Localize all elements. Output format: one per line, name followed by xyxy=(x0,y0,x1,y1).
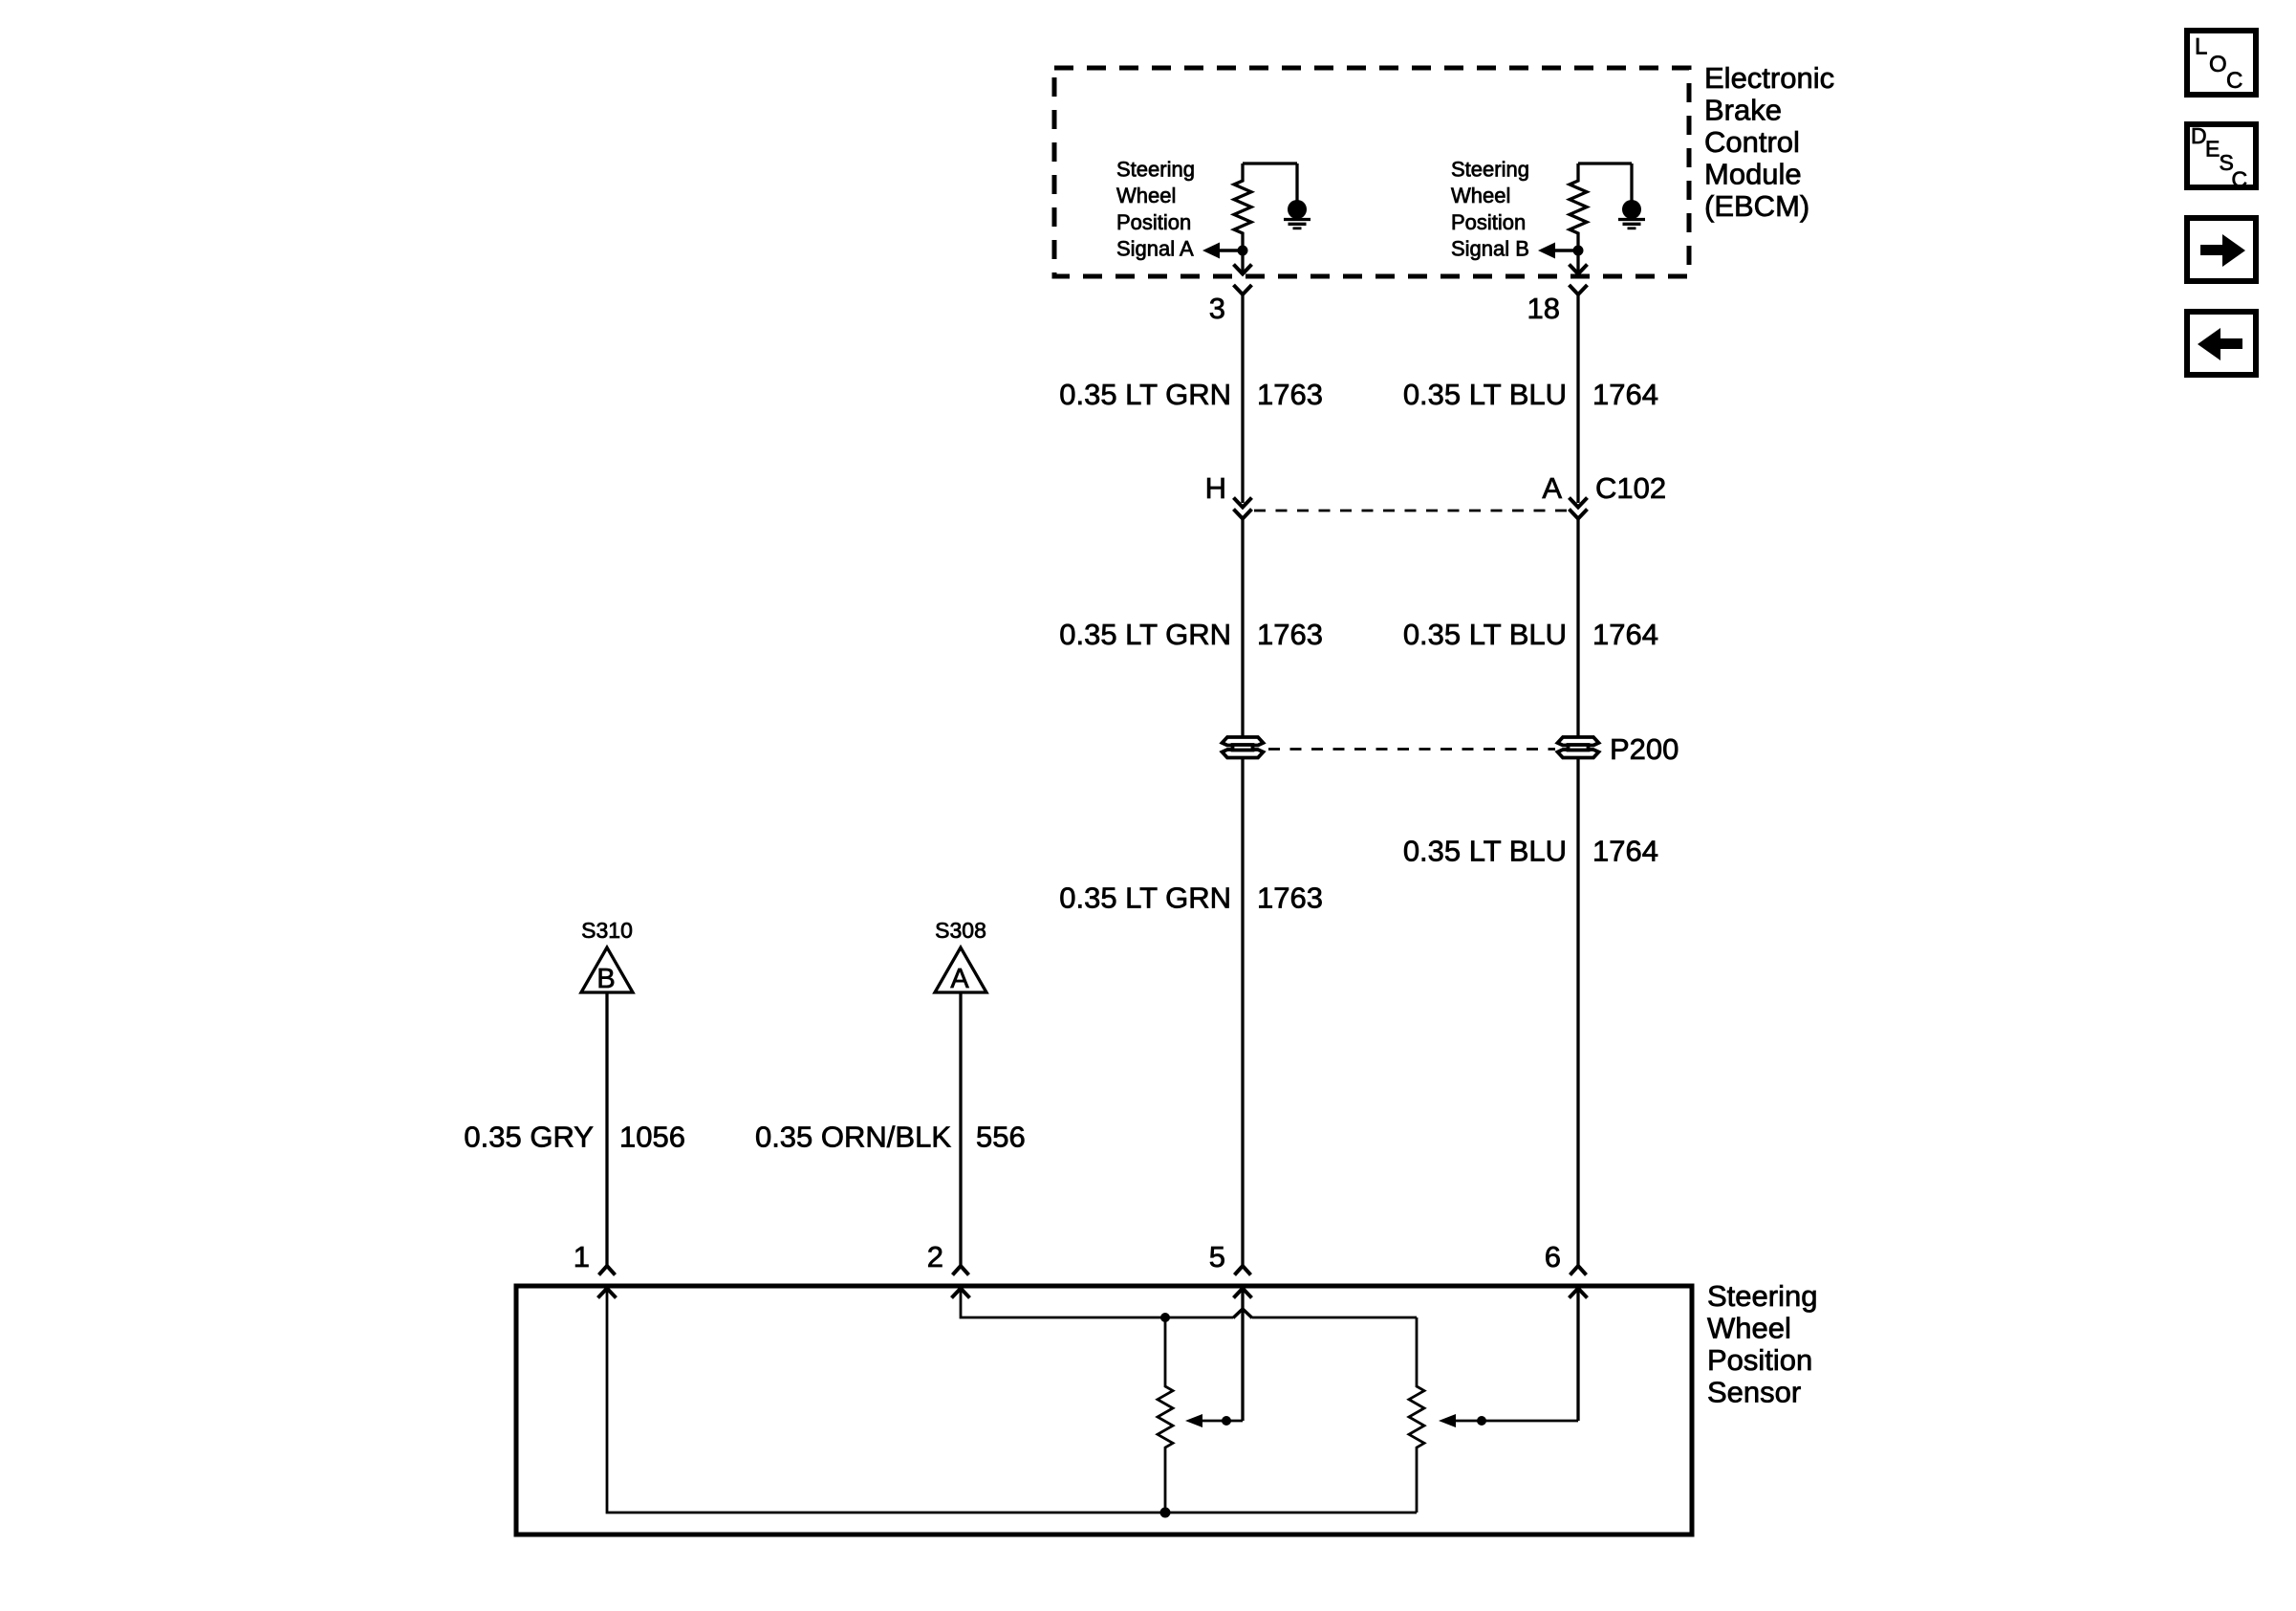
svg-text:S308: S308 xyxy=(935,918,986,943)
pin 3 connector chevron xyxy=(1234,285,1252,294)
svg-text:1: 1 xyxy=(574,1240,590,1274)
EBCM dashed box xyxy=(1054,68,1689,276)
pin 2 terminal arrow xyxy=(952,1289,970,1298)
svg-text:C: C xyxy=(2226,68,2242,94)
svg-text:P200: P200 xyxy=(1610,732,1679,766)
resistor internal EBCM signal A xyxy=(1243,162,1297,164)
svg-text:1056: 1056 xyxy=(619,1121,685,1154)
svg-text:1764: 1764 xyxy=(1592,378,1658,411)
svg-text:1764: 1764 xyxy=(1592,835,1658,868)
svg-text:0.35 LT BLU: 0.35 LT BLU xyxy=(1403,618,1567,651)
potentiometer left xyxy=(1158,1317,1173,1513)
svg-text:S310: S310 xyxy=(581,918,633,943)
connector C102 pin A xyxy=(1570,498,1588,508)
svg-text:0.35 LT BLU: 0.35 LT BLU xyxy=(1403,835,1567,868)
svg-text:C: C xyxy=(2232,167,2248,192)
svg-text:5: 5 xyxy=(1209,1240,1225,1274)
wire signal A to pin 3 xyxy=(1241,250,1244,273)
wire 1764 segment 2 xyxy=(1576,518,1579,737)
svg-text:18: 18 xyxy=(1527,292,1560,325)
signal B arrow xyxy=(1542,249,1578,252)
svg-text:0.35 LT GRN: 0.35 LT GRN xyxy=(1059,618,1231,651)
svg-text:0.35 LT GRN: 0.35 LT GRN xyxy=(1059,882,1231,915)
grommet P200 left xyxy=(1223,737,1264,746)
splice S310 triangle xyxy=(581,947,633,992)
junction dot top rail xyxy=(1160,1313,1170,1322)
svg-text:E: E xyxy=(2205,137,2220,162)
svg-text:A: A xyxy=(950,964,969,994)
Steering Wheel Position Sensor box xyxy=(516,1286,1692,1535)
svg-text:1763: 1763 xyxy=(1257,882,1323,915)
grommet P200 right xyxy=(1558,737,1599,746)
svg-text:C102: C102 xyxy=(1595,471,1666,505)
svg-text:2: 2 xyxy=(927,1240,943,1274)
junction dot signal B xyxy=(1573,246,1584,256)
wire 1763 segment 3 xyxy=(1241,758,1244,1266)
wiper junction dot right xyxy=(1477,1416,1486,1426)
svg-text:1763: 1763 xyxy=(1257,378,1323,411)
svg-text:1764: 1764 xyxy=(1592,618,1658,651)
wiper arrow left (pin 5) xyxy=(1241,1289,1244,1422)
wire 1763 segment 1 xyxy=(1241,294,1244,503)
wire 1764 segment 1 xyxy=(1576,294,1579,503)
svg-text:0.35 LT GRN: 0.35 LT GRN xyxy=(1059,378,1231,411)
signal A arrow xyxy=(1206,249,1243,252)
wire 1764 segment 3 xyxy=(1576,758,1579,1266)
resistor internal EBCM signal B xyxy=(1578,162,1632,164)
pin 2 connector chevron xyxy=(953,1266,969,1275)
sensor internal wire from pin 2 xyxy=(961,1289,1233,1318)
wire 1056 xyxy=(605,992,608,1266)
svg-text:0.35 ORN/BLK: 0.35 ORN/BLK xyxy=(755,1121,951,1154)
pin 1 connector chevron xyxy=(599,1266,616,1275)
svg-text:0.35 GRY: 0.35 GRY xyxy=(464,1121,594,1154)
icon arrow previous xyxy=(2187,312,2256,375)
ground (EBCM internal, signal A pull-down) xyxy=(1295,163,1298,201)
P200 dashed link xyxy=(1268,748,1555,751)
svg-text:O: O xyxy=(2209,52,2227,77)
pin 18 connector chevron xyxy=(1570,285,1588,294)
svg-text:B: B xyxy=(596,964,615,994)
wiper junction dot left xyxy=(1222,1416,1231,1426)
wire signal B to pin 18 xyxy=(1576,250,1579,273)
ground (EBCM internal, signal B pull-down) xyxy=(1630,163,1633,201)
wire 1763 segment 2 xyxy=(1241,518,1244,737)
pin 6 connector chevron xyxy=(1570,1266,1587,1275)
pin 5 terminal arrow xyxy=(1234,1289,1252,1298)
wiper arrow right (pin 6) xyxy=(1576,1289,1579,1422)
splice S308 triangle xyxy=(935,947,986,992)
svg-text:3: 3 xyxy=(1209,292,1225,325)
junction dot signal A xyxy=(1238,246,1248,256)
junction dot bottom rail xyxy=(1160,1508,1171,1518)
connector C102 pin H xyxy=(1234,498,1252,508)
svg-text:556: 556 xyxy=(976,1121,1026,1154)
svg-text:A: A xyxy=(1542,471,1562,505)
pin 1 terminal arrow xyxy=(598,1289,617,1298)
svg-text:L: L xyxy=(2195,34,2207,60)
potentiometer right xyxy=(1409,1317,1424,1513)
icon LOC xyxy=(2187,31,2256,95)
pin 5 connector chevron xyxy=(1235,1266,1251,1275)
wire hop over pin 5 wire xyxy=(1233,1309,1252,1318)
svg-text:0.35 LT BLU: 0.35 LT BLU xyxy=(1403,378,1567,411)
pin 6 terminal arrow xyxy=(1570,1289,1588,1298)
svg-text:SteeringWheelPositionSensor: SteeringWheelPositionSensor xyxy=(1707,1279,1817,1409)
C102 dashed link xyxy=(1254,510,1568,512)
svg-text:1763: 1763 xyxy=(1257,618,1323,651)
icon arrow next xyxy=(2187,218,2256,281)
sensor internal wire from pin 1 xyxy=(607,1289,1417,1513)
svg-text:H: H xyxy=(1205,471,1226,505)
svg-text:6: 6 xyxy=(1545,1240,1561,1274)
icon DESC xyxy=(2187,123,2256,192)
wire 556 xyxy=(959,992,962,1266)
